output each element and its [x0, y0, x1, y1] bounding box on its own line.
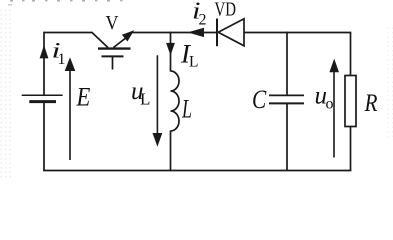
- svg-text:VD: VD: [215, 0, 237, 21]
- label uL: [131, 78, 150, 109]
- svg-text:L: L: [140, 90, 150, 109]
- resistor R box: [345, 76, 356, 127]
- wire left branch lower: [43, 103, 45, 172]
- current arrow IL: [166, 43, 175, 56]
- wire bottom rail: [43, 170, 351, 172]
- voltage arrow uo: [329, 59, 339, 158]
- svg-text:C: C: [252, 85, 267, 114]
- svg-text:L: L: [181, 95, 192, 124]
- label i1: [52, 38, 66, 69]
- svg-text:V: V: [106, 12, 119, 34]
- current arrow i1: [40, 45, 49, 58]
- capacitor C plates: [269, 95, 304, 103]
- svg-text:2: 2: [199, 12, 207, 29]
- battery E plates: [22, 95, 63, 101]
- inductor L coil: [171, 71, 180, 131]
- current arrow i2: [188, 28, 205, 37]
- wire inductor branch bottom: [170, 131, 172, 172]
- wire right branch top: [350, 32, 352, 76]
- wire top rail right segment (diode to right corner): [245, 32, 351, 34]
- wire capacitor branch top: [286, 32, 288, 95]
- svg-text:E: E: [76, 83, 91, 112]
- wire top rail left segment: [44, 32, 93, 34]
- scan halftone strip right edge: [386, 25, 393, 140]
- svg-text:L: L: [189, 54, 198, 71]
- transistor V: [92, 30, 134, 69]
- label i2: [192, 0, 207, 29]
- wire capacitor branch bottom: [286, 104, 288, 172]
- wire top rail middle segment (transistor to diode): [131, 32, 217, 34]
- label IL: [180, 40, 199, 71]
- svg-text:1: 1: [58, 51, 66, 68]
- wire left branch upper: [43, 32, 45, 95]
- diode VD: [217, 19, 244, 47]
- wire right branch bottom: [350, 126, 352, 171]
- wire inductor branch top: [170, 32, 172, 72]
- voltage arrow uL: [153, 55, 163, 147]
- scan halftone strip left edge: [0, 8, 11, 180]
- svg-text:o: o: [326, 96, 334, 113]
- cropped text remnants top edge: [8, 0, 123, 6]
- emf arrow E: [65, 57, 76, 160]
- label uo: [315, 83, 334, 113]
- svg-text:R: R: [364, 90, 378, 117]
